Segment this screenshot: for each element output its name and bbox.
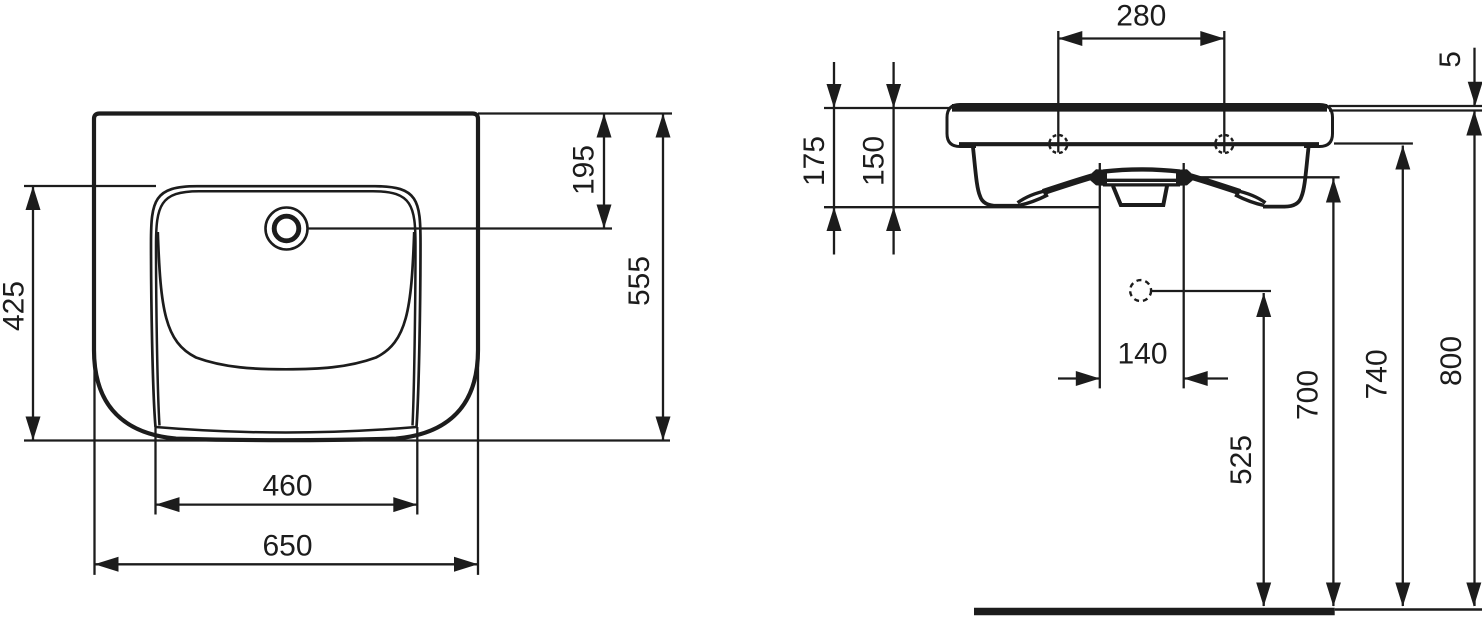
svg-text:425: 425: [0, 281, 31, 331]
svg-text:740: 740: [1361, 349, 1394, 399]
svg-text:280: 280: [1116, 0, 1166, 33]
svg-text:460: 460: [262, 470, 312, 503]
svg-text:5: 5: [1434, 51, 1467, 68]
svg-text:150: 150: [858, 136, 891, 186]
svg-text:800: 800: [1435, 336, 1468, 386]
svg-text:175: 175: [798, 136, 831, 186]
svg-text:555: 555: [623, 256, 656, 306]
svg-text:525: 525: [1225, 435, 1258, 485]
svg-text:700: 700: [1291, 370, 1324, 420]
svg-text:140: 140: [1117, 338, 1167, 371]
svg-text:650: 650: [262, 530, 312, 563]
svg-text:195: 195: [568, 145, 601, 195]
